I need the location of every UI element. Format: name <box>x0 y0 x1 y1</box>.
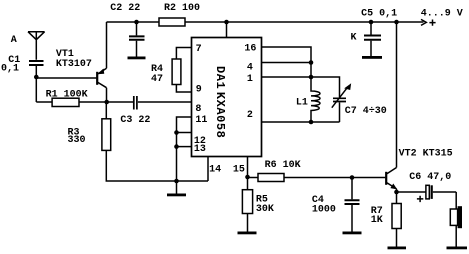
svg-text:A: A <box>11 35 17 46</box>
svg-text:R6 10K: R6 10K <box>265 160 301 171</box>
pin 9 <box>196 85 202 96</box>
ground R5 <box>238 232 257 235</box>
label 4...9 V <box>421 8 463 19</box>
svg-text:1000: 1000 <box>312 205 336 216</box>
label C5 0,1 <box>361 8 397 19</box>
svg-text:C6 47,0: C6 47,0 <box>409 172 451 183</box>
ground C2 <box>128 57 146 60</box>
antenna <box>28 32 45 60</box>
pin 16 <box>262 47 312 77</box>
wire base of VT1 <box>36 77 96 79</box>
capacitor C1 <box>29 61 44 65</box>
label VT2 KT315 <box>399 148 453 159</box>
node C2 rail <box>134 20 139 25</box>
pin 7 <box>176 48 191 60</box>
svg-text:C7 4÷30: C7 4÷30 <box>345 106 387 117</box>
pin 14 <box>209 164 221 175</box>
node VT2 collector rail <box>394 20 399 25</box>
svg-text:C3 22: C3 22 <box>120 115 150 126</box>
label R2 100 <box>164 3 200 14</box>
capacitor C2 <box>129 22 145 57</box>
capacitor C5 <box>364 22 381 56</box>
node collector VT1 <box>104 100 109 105</box>
pin 15 <box>247 157 249 178</box>
resistor R5 <box>242 177 252 232</box>
speaker <box>450 192 462 247</box>
svg-text:30K: 30K <box>256 204 274 215</box>
capacitor C4 <box>345 178 360 232</box>
svg-text:4...9 V: 4...9 V <box>421 8 463 19</box>
wire top supply rail <box>107 21 424 23</box>
svg-text:2: 2 <box>247 110 253 121</box>
node C4 base <box>350 175 355 180</box>
ground speaker <box>447 247 468 250</box>
svg-text:11: 11 <box>195 115 207 126</box>
label R3 330 <box>68 127 86 146</box>
wire C1 to node <box>35 66 37 102</box>
capacitor C6 electrolytic <box>397 185 457 199</box>
label C6 47,0 <box>409 172 451 183</box>
label L1 <box>296 97 308 108</box>
resistor R7 <box>392 192 401 247</box>
ground R7 <box>388 247 407 250</box>
svg-text:330: 330 <box>68 135 86 146</box>
label C2 22 <box>110 3 140 14</box>
svg-text:47: 47 <box>151 74 163 85</box>
ground main <box>167 181 186 196</box>
svg-text:DA1: DA1 <box>213 66 227 89</box>
resistor R3 <box>102 102 208 181</box>
pin 1 <box>262 76 312 78</box>
op-amp U1 IC DA1 box <box>192 38 262 157</box>
svg-text:L1: L1 <box>296 97 308 108</box>
svg-text:0,1: 0,1 <box>1 64 19 75</box>
svg-text:16: 16 <box>244 43 256 54</box>
pin 13 <box>177 146 192 148</box>
pin 11 <box>177 117 192 181</box>
svg-text:1: 1 <box>247 74 253 85</box>
svg-text:C5 0,1: C5 0,1 <box>361 8 397 19</box>
capacitor C7 variable <box>311 77 351 122</box>
svg-text:VT2 KT315: VT2 KT315 <box>399 148 453 159</box>
transistor VT1 <box>97 22 106 102</box>
svg-text:KXA058: KXA058 <box>213 92 227 139</box>
label R5 30K <box>256 195 274 215</box>
ground C5 <box>362 56 382 59</box>
capacitor C3 <box>134 96 137 110</box>
wire rail to VT2 collector <box>396 22 398 168</box>
supply arrow <box>421 19 426 25</box>
svg-text:R1 100K: R1 100K <box>46 89 88 100</box>
wire C3 to pin8 <box>138 101 192 103</box>
svg-text:8: 8 <box>195 104 201 115</box>
pin 12 <box>177 132 192 134</box>
node antenna-base junction <box>34 75 39 80</box>
resistor R1 <box>36 98 133 106</box>
resistor R6 <box>248 174 386 182</box>
svg-text:9: 9 <box>196 85 202 96</box>
label R6 10K <box>265 160 301 171</box>
node rail to IC <box>224 20 229 25</box>
label C7 4÷30 <box>345 106 387 117</box>
transistor VT2 <box>386 168 396 193</box>
svg-text:13: 13 <box>194 144 206 155</box>
plus sign supply <box>429 20 435 26</box>
resistor R2 <box>159 18 185 26</box>
pin 4 <box>262 62 312 64</box>
label K <box>351 32 357 43</box>
svg-text:7: 7 <box>196 44 202 55</box>
label A <box>11 35 17 46</box>
label R7 1K <box>371 206 383 226</box>
svg-text:K: K <box>351 32 357 43</box>
pin 8 <box>195 104 201 115</box>
label R4 47 <box>151 64 163 85</box>
label R1 100K <box>46 89 88 100</box>
svg-text:15: 15 <box>233 164 245 175</box>
plus sign C6 <box>417 196 423 202</box>
label KXA058 <box>213 92 227 139</box>
wire rail to IC top <box>226 22 228 38</box>
node R5 R6 pin15 <box>245 175 250 180</box>
node emitter VT2 <box>394 190 399 195</box>
svg-text:1K: 1K <box>371 215 383 226</box>
label DA1 <box>213 66 227 89</box>
pin 2 <box>262 121 312 123</box>
ground C4 <box>343 232 362 235</box>
inductor L1 <box>311 77 320 122</box>
svg-text:KT3107: KT3107 <box>56 59 92 70</box>
node C5 rail <box>369 20 374 25</box>
label C1 0,1 <box>1 55 20 75</box>
node ground junction <box>174 179 179 184</box>
svg-text:4: 4 <box>247 63 253 74</box>
svg-text:C2 22: C2 22 <box>110 3 140 14</box>
label C4 1000 <box>312 195 336 216</box>
label C3 22 <box>120 115 150 126</box>
svg-text:14: 14 <box>209 164 221 175</box>
label VT1 KT3107 <box>56 49 92 70</box>
resistor R4 <box>172 59 191 92</box>
svg-text:R2 100: R2 100 <box>164 3 200 14</box>
